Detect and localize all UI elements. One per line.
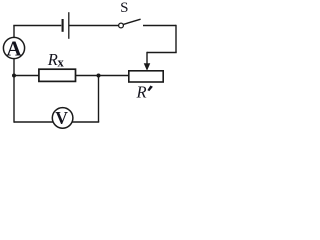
rheostat wiper arrow <box>144 52 150 70</box>
node junction dot left <box>12 74 16 78</box>
svg-text:V: V <box>55 108 68 128</box>
svg-text:S: S <box>120 0 128 16</box>
battery cell (short plate) <box>62 19 64 32</box>
wire middle rail left (junction to Rx box) <box>14 75 39 77</box>
wire switch to right corner <box>143 25 176 27</box>
svg-text:R: R <box>136 83 147 102</box>
wire top rail left (to battery) <box>13 25 61 27</box>
wire wiper link horizontal <box>147 52 177 54</box>
node junction dot right <box>97 74 101 78</box>
wire top rail right (battery to switch) <box>69 25 119 27</box>
switch S pivot circle <box>119 23 124 28</box>
wire top-left vertical from ammeter to top rail <box>13 26 15 38</box>
ammeter A <box>3 37 24 58</box>
svg-text:x: x <box>58 56 65 70</box>
switch S lever <box>123 19 140 24</box>
wire left vertical (ammeter to bottom rail) <box>13 59 15 123</box>
wire junction vertical down <box>98 76 100 123</box>
svg-text:R: R <box>47 50 58 69</box>
battery cell (long plate) <box>68 12 70 39</box>
resistor Rx box <box>39 69 76 81</box>
wire Rx box to rheostat <box>76 75 130 77</box>
wire right vertical <box>175 25 177 53</box>
svg-text:A: A <box>6 36 22 60</box>
rheostat R' box <box>129 71 163 82</box>
wire bottom rail <box>14 121 99 123</box>
voltmeter V <box>52 108 73 129</box>
